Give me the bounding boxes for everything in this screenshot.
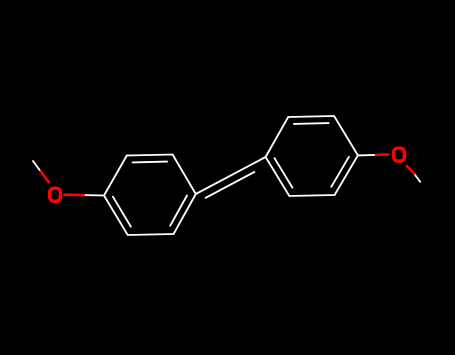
right ring inner double bond top [294, 122, 329, 125]
left ring inner double bond lower-left [113, 197, 131, 227]
right ring inner double bond lower-left [275, 158, 293, 187]
left benzene ring outline [104, 155, 196, 236]
left methyl red half bond [41, 171, 49, 182]
bridge C=C main line [196, 157, 266, 194]
left O-ring red half bond [64, 193, 83, 196]
right benzene ring outline [266, 116, 358, 196]
left ring inner double bond top [133, 161, 168, 164]
left O-ring white half bond [84, 194, 105, 196]
left ring inner double bond lower-right [170, 196, 187, 226]
right methyl red half bond [407, 166, 414, 174]
oxygen O right [394, 148, 405, 161]
right ring inner double bond lower-right [331, 157, 349, 187]
right O-ring white half bond [358, 154, 376, 157]
bridge C=C second line [206, 172, 255, 198]
right O-ring red half bond [376, 153, 389, 156]
left methyl white half bond [33, 161, 41, 171]
right methyl white half bond [414, 174, 420, 182]
oxygen O left [50, 188, 61, 201]
